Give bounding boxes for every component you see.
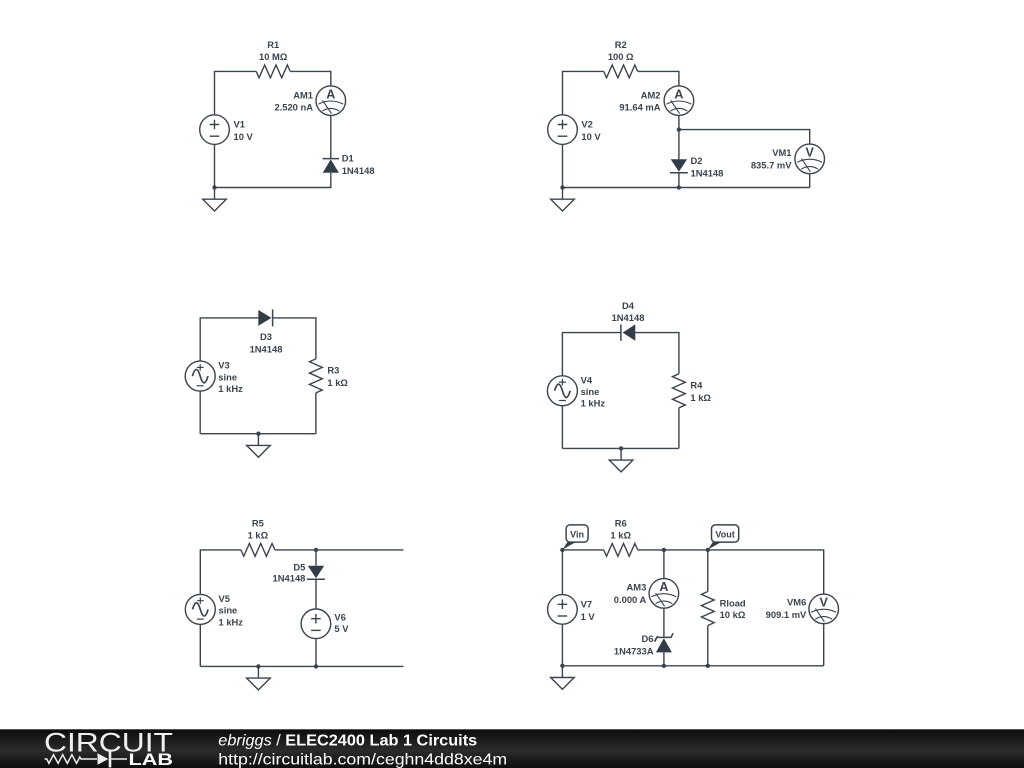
svg-text:1N4733A: 1N4733A	[614, 645, 654, 656]
svg-text:V3: V3	[218, 360, 229, 371]
svg-text:1 kHz: 1 kHz	[581, 398, 606, 409]
wire V3 top to D3 anode	[200, 318, 258, 361]
voltage source V7	[548, 595, 578, 625]
wire node to AM3 top	[663, 550, 665, 579]
wire V7 bottom to ground node	[561, 624, 563, 666]
svg-text:V5: V5	[219, 593, 230, 604]
svg-text:1 kΩ: 1 kΩ	[327, 377, 348, 388]
node AM2/D2/VM1	[677, 127, 681, 131]
svg-text:V: V	[806, 146, 815, 160]
svg-text:Vin: Vin	[570, 530, 584, 540]
resistor R6	[604, 544, 638, 557]
svg-text:LAB: LAB	[129, 751, 174, 768]
svg-text:2.520 nA: 2.520 nA	[274, 102, 313, 113]
svg-text:10 V: 10 V	[234, 131, 254, 142]
svg-text:0.000 A: 0.000 A	[614, 594, 647, 605]
wire Vout node to VM6 top	[708, 550, 824, 594]
ammeter AM3	[649, 579, 679, 609]
svg-text:A: A	[659, 580, 668, 594]
wire bottom rail to open end	[200, 665, 403, 667]
leader D6 label to zener bar	[654, 636, 658, 641]
leader 1N4148 to D5 bar	[307, 578, 312, 580]
diode D1	[323, 159, 340, 173]
svg-text:R6: R6	[615, 517, 627, 528]
node D2 bottom rail	[677, 185, 681, 189]
diode D5	[307, 566, 325, 579]
svg-text:1N4148: 1N4148	[612, 312, 645, 323]
wire node to VM1 top	[679, 130, 810, 145]
ground	[247, 434, 271, 458]
voltmeter VM1	[795, 144, 825, 174]
wire R3 bottom to bottom rail	[315, 393, 317, 434]
svg-text:Rload: Rload	[720, 598, 746, 609]
diode D3	[258, 309, 272, 326]
svg-text:1N4148: 1N4148	[691, 167, 724, 178]
wire Rload bottom to bottom rail	[707, 626, 709, 666]
diode D4	[621, 324, 635, 340]
sine source V4	[547, 376, 577, 406]
resistor R4	[673, 374, 686, 408]
svg-text:1 V: 1 V	[581, 611, 596, 622]
wire V2 top to R2 left	[563, 71, 604, 115]
sine source V5	[185, 594, 215, 624]
zener diode D6	[655, 633, 673, 652]
wire V1 top to R1 left	[215, 71, 257, 115]
wire D5 cathode to V6 top	[315, 579, 317, 609]
footer bar	[0, 729, 1024, 768]
node flag Vin	[563, 525, 588, 550]
resistor R2	[604, 65, 638, 78]
svg-text:1 kHz: 1 kHz	[219, 616, 244, 627]
svg-text:R5: R5	[252, 517, 264, 528]
wire VM6 bottom to bottom rail	[823, 624, 825, 666]
wire R5 right to open end	[275, 549, 404, 551]
svg-text:D5: D5	[293, 562, 305, 573]
node flag Vout	[708, 525, 739, 550]
wire D1 anode to bottom rail	[215, 173, 331, 188]
ground	[609, 448, 633, 472]
wire V3 bottom to bottom rail	[199, 391, 201, 434]
voltage source V6	[301, 609, 331, 639]
ground	[247, 666, 271, 690]
svg-text:1 kHz: 1 kHz	[218, 383, 243, 394]
node Vout	[706, 548, 710, 552]
svg-text:1 kΩ: 1 kΩ	[610, 530, 631, 541]
logo resistor glyph	[45, 755, 98, 764]
wire AM2 bottom to node	[678, 116, 680, 130]
svg-text:R1: R1	[267, 39, 279, 50]
svg-text:V1: V1	[234, 119, 245, 130]
svg-text:1N4148: 1N4148	[342, 165, 375, 176]
ground	[551, 666, 575, 690]
wire bottom rail	[200, 433, 316, 435]
wire V6 bottom to bottom rail	[315, 639, 317, 667]
svg-text:VM1: VM1	[772, 147, 791, 158]
svg-text:Vout: Vout	[715, 530, 734, 540]
svg-text:V6: V6	[334, 611, 345, 622]
resistor R1	[256, 65, 290, 78]
voltmeter VM6	[809, 594, 839, 624]
node ground tap	[256, 432, 260, 436]
logo diode glyph	[98, 753, 109, 764]
wire D4 anode to R4 top	[635, 333, 679, 374]
svg-text:R2: R2	[615, 39, 627, 50]
wire D2 cathode to bottom rail	[678, 173, 680, 188]
wire V5 top to R5 left	[200, 550, 241, 595]
node ground tap	[619, 446, 623, 450]
svg-text:ebriggs / ELEC2400 Lab 1 Circu: ebriggs / ELEC2400 Lab 1 Circuits	[218, 732, 477, 749]
wire V2 bottom to ground node	[562, 144, 564, 187]
svg-text:sine: sine	[219, 605, 238, 616]
wire VM1 bottom to bottom rail	[809, 174, 811, 188]
svg-text:1N4148: 1N4148	[273, 572, 306, 583]
svg-text:1 kΩ: 1 kΩ	[690, 392, 711, 403]
svg-text:91.64 mA: 91.64 mA	[619, 102, 660, 113]
resistor R5	[241, 544, 275, 557]
wire Vout node to Rload top	[707, 550, 709, 592]
svg-text:AM1: AM1	[293, 89, 313, 100]
svg-text:909.1 mV: 909.1 mV	[766, 609, 807, 620]
svg-text:1 kΩ: 1 kΩ	[248, 530, 269, 541]
ground	[551, 188, 575, 212]
wire bottom rail	[562, 447, 679, 449]
svg-text:A: A	[674, 87, 683, 101]
wire V4 top to D4 cathode	[562, 333, 621, 376]
svg-text:sine: sine	[218, 371, 237, 382]
wire R4 bottom to bottom rail	[678, 408, 680, 449]
svg-text:100 Ω: 100 Ω	[608, 51, 634, 62]
wire AM3 bottom to D6 cathode	[663, 608, 665, 637]
wire bottom rail	[563, 187, 810, 189]
sine source V3	[185, 361, 215, 391]
node D6 bottom rail	[662, 664, 666, 668]
svg-text:1N4148: 1N4148	[250, 343, 283, 354]
node Vin	[560, 548, 564, 552]
wire bottom rail	[562, 665, 823, 667]
wire D3 cathode to R3 top	[273, 318, 316, 359]
ammeter AM2	[664, 86, 694, 116]
svg-text:VM6: VM6	[787, 597, 806, 608]
resistor Rload	[701, 592, 714, 626]
diode D2	[670, 159, 688, 172]
svg-text:V4: V4	[581, 374, 593, 385]
svg-text:D2: D2	[691, 155, 703, 166]
wire D6 anode to bottom rail	[663, 652, 665, 665]
node Rload bottom rail	[706, 664, 710, 668]
svg-text:D1: D1	[342, 152, 354, 163]
node ground tap	[256, 664, 260, 668]
node ground junction	[560, 664, 564, 668]
node R5/D5 junction	[314, 548, 318, 552]
svg-text:AM3: AM3	[627, 582, 647, 593]
voltage source V1	[200, 115, 230, 145]
svg-text:D4: D4	[622, 300, 635, 311]
svg-text:D6: D6	[642, 633, 654, 644]
svg-text:http://circuitlab.com/ceghn4dd: http://circuitlab.com/ceghn4dd8xe4m	[218, 751, 507, 768]
voltage source V2	[548, 115, 578, 145]
svg-text:835.7 mV: 835.7 mV	[751, 160, 792, 171]
wire AM1 bottom to D1 cathode	[330, 116, 332, 159]
wire V7 top to R6 left	[562, 550, 603, 595]
wire R6 right to Vout node	[638, 549, 708, 551]
svg-text:10 MΩ: 10 MΩ	[259, 51, 288, 62]
node V1- / ground junction	[212, 185, 216, 189]
wire R1 right to AM1 top	[290, 71, 331, 86]
svg-text:D3: D3	[260, 331, 272, 342]
resistor R3	[310, 359, 323, 393]
svg-text:A: A	[326, 87, 335, 101]
node V2- / ground junction	[560, 185, 564, 189]
ground	[203, 188, 227, 212]
wire node to D5 anode	[315, 550, 317, 566]
svg-text:V7: V7	[581, 599, 592, 610]
svg-text:V: V	[820, 596, 829, 610]
svg-text:R3: R3	[327, 365, 339, 376]
svg-text:5 V: 5 V	[334, 623, 349, 634]
svg-text:10 V: 10 V	[581, 131, 601, 142]
svg-text:R4: R4	[690, 379, 703, 390]
svg-text:AM2: AM2	[641, 89, 661, 100]
svg-text:V2: V2	[581, 119, 592, 130]
node V6 bottom rail	[314, 664, 318, 668]
wire V4 bottom to bottom rail	[561, 406, 563, 449]
wire R2 right to AM2 top	[638, 71, 679, 86]
svg-text:sine: sine	[581, 386, 600, 397]
wire V1 bottom to ground node	[214, 144, 216, 187]
svg-text:10 kΩ: 10 kΩ	[720, 609, 746, 620]
node AM3 top	[662, 548, 666, 552]
wire node to D2 anode	[678, 130, 680, 160]
ammeter AM1	[316, 86, 346, 116]
wire V5 bottom to bottom rail	[199, 624, 201, 666]
